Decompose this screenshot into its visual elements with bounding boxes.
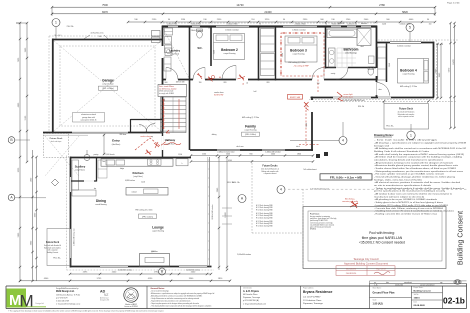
pantry wall <box>96 158 98 182</box>
svg-text:deck: deck <box>296 146 300 148</box>
wall bed3 right bathroom left <box>325 26 327 69</box>
svg-text:HW ceiling @ 2.55m: HW ceiling @ 2.55m <box>135 210 153 212</box>
closets between bed2 bed3 <box>261 29 275 53</box>
svg-text:4,000x1.0 window: 4,000x1.0 window <box>397 46 411 48</box>
svg-text:fibre glass pool NARELLAN: fibre glass pool NARELLAN <box>362 236 403 240</box>
stair notes box <box>158 85 187 97</box>
svg-text:hwc: hwc <box>102 161 105 163</box>
svg-text:Future Deck: Future Deck <box>50 137 63 140</box>
svg-text:3,040x2,440 STACKER door: 3,040x2,440 STACKER door <box>343 99 365 102</box>
svg-text:90: 90 <box>325 23 327 25</box>
future deck left entry <box>44 134 69 158</box>
window top wall <box>216 25 249 28</box>
svg-text:- Cladding: brick veneer 70 se: - Cladding: brick veneer 70 series & wea… <box>374 210 454 213</box>
entry porch wall right <box>162 133 164 158</box>
red entry marks <box>154 142 159 148</box>
wall garage bottom <box>43 132 163 134</box>
svg-text:4x Roof tile vents: 4x Roof tile vents <box>91 32 104 35</box>
svg-text:2,350x1.0 W04: 2,350x1.0 W04 <box>295 23 306 25</box>
svg-text:24.06.2020: 24.06.2020 <box>395 285 403 287</box>
svg-text:- Ground with plumbing, draina: - Ground with plumbing, drainage, plumbe… <box>374 176 455 179</box>
bathroom tile grid <box>336 48 338 67</box>
door arc wc <box>193 68 205 80</box>
svg-text:Drawing Notes:: Drawing Notes: <box>374 133 394 137</box>
left dimension lines <box>19 23 21 281</box>
svg-text:Bedroom 4: Bedroom 4 <box>400 69 417 73</box>
window lounge bottom <box>100 265 128 267</box>
svg-text:island: island <box>132 192 137 194</box>
svg-text:24/08/2020: 24/08/2020 <box>346 273 357 275</box>
kitchen bench <box>101 159 173 166</box>
svg-text:robe: robe <box>378 88 381 91</box>
svg-text:(vinyl floor): (vinyl floor) <box>170 53 180 56</box>
svg-text:1,130x0.6 W01: 1,130x0.6 W01 <box>167 23 178 25</box>
title block upper mini row <box>370 280 467 282</box>
svg-text:2,550x1.0 W03: 2,550x1.0 W03 <box>227 23 238 25</box>
title block frame <box>6 285 467 287</box>
svg-text:900x0.6 W02: 900x0.6 W02 <box>191 23 201 25</box>
stair red balustrade lines <box>163 99 165 129</box>
svg-text:900: 900 <box>249 153 252 155</box>
svg-text:e: maurice@mnmdesign.co.nz: e: maurice@mnmdesign.co.nz <box>56 303 80 305</box>
svg-text:Building Consent: Building Consent <box>414 289 432 292</box>
red scribble kitchen wall <box>145 150 152 156</box>
svg-text:1,200: 1,200 <box>178 154 182 156</box>
window lounge bottom <box>179 265 207 267</box>
future deck bottom-left <box>47 229 70 266</box>
svg-text:4,880 kitchen: 4,880 kitchen <box>125 179 135 182</box>
red label hall smoke <box>211 75 214 78</box>
svg-text:1790: 1790 <box>151 251 155 253</box>
roof eave dashed outline <box>48 36 50 135</box>
tiled shower <box>357 29 371 46</box>
svg-text:obscure: obscure <box>361 22 367 25</box>
svg-text:11000: 11000 <box>225 211 227 217</box>
window top wall <box>331 25 341 28</box>
svg-text:- Roofing: concrete tiles on t: - Roofing: concrete tiles on timber trus… <box>374 212 437 215</box>
top dimension lines <box>52 6 435 8</box>
grid bubble A left <box>8 194 15 201</box>
svg-text:Tall refurbishment: Tall refurbishment <box>303 168 317 171</box>
top small dimension row <box>128 21 435 23</box>
svg-text:760: 760 <box>317 83 320 85</box>
svg-text:vanity: vanity <box>331 72 336 75</box>
garage ceiling dashed rect <box>60 46 155 126</box>
svg-text:1:50 (A2): 1:50 (A2) <box>373 302 383 305</box>
svg-text:Pool with fencing:: Pool with fencing: <box>369 231 395 235</box>
wall bathroom bottom <box>326 67 376 69</box>
svg-text:- All drawings + specification: - All drawings + specifications are subj… <box>374 141 467 144</box>
svg-text:HW ceiling @ 2.55m: HW ceiling @ 2.55m <box>400 86 418 88</box>
svg-text:Future Deck: Future Deck <box>46 241 60 244</box>
svg-text:1160: 1160 <box>202 153 206 155</box>
window top wall <box>168 25 178 28</box>
window dining left <box>69 177 71 192</box>
svg-text:Pool fence:: Pool fence: <box>310 214 320 216</box>
bath <box>327 29 357 38</box>
svg-text:5: 5 <box>409 26 411 30</box>
svg-text:4: 4 <box>280 188 282 192</box>
svg-text:concrete pad verify: concrete pad verify <box>342 200 358 203</box>
svg-text:auto opener 4.8x2.1h: auto opener 4.8x2.1h <box>81 118 97 121</box>
svg-text:02-1b: 02-1b <box>443 296 465 306</box>
svg-text:Hallway: Hallway <box>165 138 176 142</box>
svg-text:- Safety glass to be to NZS422: - Safety glass to be to NZS4223, to all … <box>374 201 443 204</box>
bed bedroom4 <box>398 59 429 84</box>
wall hall top <box>162 79 377 81</box>
svg-text:- Aluminium double glazed join: - Aluminium double glazed joinery powder… <box>374 164 458 167</box>
svg-text:2,400x600 window: 2,400x600 window <box>118 270 133 272</box>
svg-text:13 Celestina Close: 13 Celestina Close <box>303 299 322 302</box>
wall lounge bottom <box>70 266 212 268</box>
entry vestibule <box>130 119 132 133</box>
svg-text:8470: 8470 <box>102 10 108 14</box>
svg-text:2,400x600 window: 2,400x600 window <box>186 270 201 272</box>
bed bedroom2 <box>214 34 245 60</box>
round stamp <box>124 288 138 302</box>
svg-text:Design Ltd: Design Ltd <box>374 144 389 147</box>
svg-text:Dining: Dining <box>96 199 106 203</box>
svg-text:<35,000Lt: NO consent needed: <35,000Lt: NO consent needed <box>359 241 405 245</box>
svg-text:Garage: Garage <box>102 79 114 83</box>
wall bed4 top <box>376 42 434 44</box>
laundry tub <box>165 48 172 56</box>
svg-text:Bedroom 3: Bedroom 3 <box>290 49 307 53</box>
svg-text:820: 820 <box>267 82 270 84</box>
wall kitchen top <box>70 157 191 159</box>
svg-text:Tauranga City Council: Tauranga City Council <box>353 257 379 261</box>
scullery bottom wall <box>71 180 97 182</box>
svg-text:MnM Design Ltd.: MnM Design Ltd. <box>56 290 75 293</box>
future deck right of bed4 <box>313 100 457 102</box>
red smoke alarm label bath <box>337 92 343 101</box>
wall bed4 bottom <box>311 97 435 99</box>
svg-text:2,440: 2,440 <box>306 123 308 127</box>
window bed4 bottom wall <box>378 96 391 98</box>
svg-text:3,040x2,440 stacker: 3,040x2,440 stacker <box>211 204 214 220</box>
svg-text:2,440x2,440 window: 2,440x2,440 window <box>265 151 281 153</box>
svg-text:90: 90 <box>259 23 261 25</box>
svg-text:BC#21093: BC#21093 <box>346 268 357 270</box>
svg-text:RL +9.8: RL +9.8 <box>437 44 443 46</box>
red pool fixing scribble <box>350 201 358 208</box>
svg-text:900: 900 <box>165 82 168 84</box>
lounge ffl box <box>139 214 157 218</box>
svg-text:Papamoa, Tauranga: Papamoa, Tauranga <box>303 302 323 305</box>
grid bubble family dim <box>339 137 347 145</box>
svg-text:pantry: pantry <box>94 153 99 156</box>
svg-text:3,210: 3,210 <box>214 50 216 54</box>
svg-text:2440: 2440 <box>271 153 275 155</box>
svg-text:Laundry: Laundry <box>169 49 180 53</box>
deck posts <box>316 154 320 158</box>
door opening hall <box>193 78 205 80</box>
svg-text:PGL 23b: PGL 23b <box>67 26 74 28</box>
svg-text:900x0.5 obs: 900x0.5 obs <box>332 23 341 25</box>
wall family right <box>311 97 313 151</box>
svg-text:- Concrete floor slab: 100mm,: - Concrete floor slab: 100mm, reinforcin… <box>374 207 443 210</box>
svg-text:05-08-2020: 05-08-2020 <box>414 305 426 307</box>
door opening hall <box>236 78 248 80</box>
svg-text:3,040: 3,040 <box>389 63 391 67</box>
svg-text:e: bryansdee@outlook.com: e: bryansdee@outlook.com <box>243 302 266 305</box>
svg-text:W.C.: W.C. <box>198 48 203 50</box>
entry area dashed diagonals <box>45 136 79 176</box>
grid bubble B left upper <box>8 137 15 144</box>
svg-text:app: app <box>440 282 443 284</box>
svg-text:(FFL 0.08m): (FFL 0.08m) <box>245 134 256 136</box>
svg-text:p 021-2402700 (A): p 021-2402700 (A) <box>243 299 259 302</box>
svg-text:m 021 046 1769: m 021 046 1769 <box>56 300 69 302</box>
door laundry <box>161 46 163 58</box>
svg-text:garage door with: garage door with <box>82 116 95 119</box>
svg-text:- All timber shall be treated: - All timber shall be treated in conjunc… <box>374 156 462 159</box>
svg-text:carpet flooring: carpet flooring <box>403 73 415 76</box>
svg-text:760: 760 <box>199 82 202 84</box>
svg-text:on site to manufacturers speci: on site to manufacturers specifications … <box>374 184 431 187</box>
svg-text:4500: 4500 <box>228 160 232 162</box>
svg-text:- All building work shall be c: - All building work shall be carried out… <box>374 147 467 150</box>
wardrobe bed4 <box>378 47 386 80</box>
deck joist notes <box>222 207 232 209</box>
wall garage top <box>52 39 163 41</box>
svg-text:Design Ltd: Design Ltd <box>36 302 44 305</box>
ensuite wc <box>368 68 374 75</box>
svg-text:Page 2 of 4b: Page 2 of 4b <box>447 3 460 5</box>
wall family bottom <box>190 149 313 151</box>
svg-text:- Waterproofing membranes, per: - Waterproofing membranes, per the manuf… <box>374 170 463 173</box>
svg-text:Family: Family <box>245 125 256 129</box>
ensuite basin <box>369 56 375 64</box>
pool fence dashed <box>302 189 304 268</box>
leader arrows roof vents <box>84 35 90 39</box>
svg-text:1: 1 <box>410 133 412 137</box>
svg-text:2,000: 2,000 <box>382 23 386 25</box>
svg-text:2780: 2780 <box>379 3 385 7</box>
svg-text:19019: 19019 <box>414 298 421 300</box>
svg-text:tiled: tiled <box>360 45 363 48</box>
right dimension lines <box>450 23 452 128</box>
linen shelves <box>165 28 173 35</box>
svg-text:p 07 573 8179: p 07 573 8179 <box>56 297 68 299</box>
svg-text:deck over: deck over <box>236 145 244 148</box>
svg-text:- Hot water cylinder restraine: - Hot water cylinder restrained as per G… <box>374 173 445 176</box>
garage door opening <box>72 131 128 133</box>
grid bubble 5 top-right <box>406 24 414 32</box>
scullery bench <box>72 160 79 190</box>
title block mini revision row <box>370 283 467 285</box>
svg-text:Scale:: Scale: <box>373 299 378 301</box>
svg-text:- Timber to weatherboard produ: - Timber to weatherboard products & retr… <box>374 187 464 190</box>
svg-text:FDL 3b-: FDL 3b- <box>386 126 393 128</box>
grid bubble deck 4 <box>277 186 285 194</box>
svg-text:Building Consent: Building Consent <box>456 211 465 265</box>
svg-text:A. & R. Bryans: A. & R. Bryans <box>243 290 260 293</box>
svg-text:(tiled flooring): (tiled flooring) <box>345 52 357 55</box>
svg-text:concrete floor: concrete floor <box>102 83 114 86</box>
wall stairs right / family left <box>189 26 191 151</box>
wall dining left <box>70 157 72 268</box>
FFL datum box <box>320 174 372 180</box>
svg-text:Papamoa, Tauranga: Papamoa, Tauranga <box>243 296 261 299</box>
svg-text:7500: 7500 <box>102 3 108 7</box>
svg-text:smoke alarms: smoke alarms <box>140 136 151 138</box>
window diamond tag <box>52 179 59 186</box>
garage dashed diagonals <box>54 41 161 131</box>
svg-text:Entry: Entry <box>112 139 120 143</box>
svg-text:2,400x600 window: 2,400x600 window <box>237 254 252 256</box>
wall laundry left vertical <box>162 26 164 134</box>
svg-text:(vinyl floor): (vinyl floor) <box>133 175 143 178</box>
svg-text:carpet floor: carpet floor <box>166 142 175 145</box>
svg-text:Ground Floor Plan: Ground Floor Plan <box>373 292 395 295</box>
red dashed family wall <box>305 103 307 146</box>
wall bed2 right <box>258 26 260 81</box>
svg-text:(tiled floor): (tiled floor) <box>112 143 121 146</box>
svg-text:FFL 0.00+ = 9.1m = MD: FFL 0.00+ = 9.1m = MD <box>330 175 363 179</box>
svg-text:860 door: 860 door <box>120 133 127 136</box>
door arc bed4 <box>377 83 390 96</box>
svg-text:Lounge: Lounge <box>152 226 164 230</box>
svg-text:Future Deck: Future Deck <box>399 108 413 111</box>
svg-text:2,400x2,100 sliding door: 2,400x2,100 sliding door <box>74 228 76 246</box>
mini logo mark <box>454 280 461 284</box>
svg-text:- All penetrations & fixings t: - All penetrations & fixings to be seale… <box>374 161 453 164</box>
svg-text:- Insulation: R2.9 ceiling, R2: - Insulation: R2.9 ceiling, R2.0 walls, … <box>374 204 448 207</box>
stacker door family <box>333 96 371 98</box>
svg-text:2,350x1.0 window: 2,350x1.0 window <box>292 30 306 32</box>
svg-text:2,130x0.6 window: 2,130x0.6 window <box>189 30 203 32</box>
svg-text:- Do not scale from drawings: - Do not scale from drawings <box>374 139 437 142</box>
meter boxes <box>152 31 161 37</box>
red mark family door <box>304 102 309 110</box>
svg-text:carpet flooring: carpet flooring <box>224 52 236 55</box>
svg-text:1,200x0.5 obs: 1,200x0.5 obs <box>347 23 357 25</box>
red hallway path <box>135 138 168 150</box>
svg-text:5820: 5820 <box>402 10 408 14</box>
laundry bench <box>164 57 171 71</box>
grid bubble notes 1 <box>407 131 415 139</box>
red dashed escape route bed3 <box>281 33 324 76</box>
svg-text:4,000x1.0 W06: 4,000x1.0 W06 <box>400 23 411 25</box>
svg-text:110: 110 <box>429 23 432 25</box>
grid bubble deck A <box>238 195 246 203</box>
svg-text:HW ceiling @ 2.55m: HW ceiling @ 2.55m <box>288 62 306 64</box>
svg-text:SD/ST2 HW: SD/ST2 HW <box>290 97 301 99</box>
svg-text:sliding: sliding <box>212 134 217 136</box>
red smoke alarm label hall left <box>288 95 303 100</box>
svg-text:1,100: 1,100 <box>141 182 145 184</box>
svg-text:- All plumbing to be as per G1: - All plumbing to be as per G12/AS1 & G1… <box>374 198 437 201</box>
stacker doors lounge right <box>209 157 211 267</box>
svg-text:2,000 bench: 2,000 bench <box>105 154 114 156</box>
svg-text:FDL 3b-: FDL 3b- <box>53 258 60 260</box>
window top wall <box>361 25 371 28</box>
wall closet divider <box>275 26 277 81</box>
door arc laundry <box>166 68 178 80</box>
grid bubble bottom B <box>159 268 166 275</box>
window dining left <box>69 229 71 258</box>
pool area outer rect <box>303 207 446 269</box>
svg-text:manufacture (all sizes subject: manufacture (all sizes subject to site c… <box>374 195 424 198</box>
svg-text:- All electrical services, pos: - All electrical services, positions & n… <box>374 181 460 184</box>
svg-text:Future Decks: Future Decks <box>262 165 278 168</box>
laundry dashed roofline <box>163 28 189 78</box>
svg-text:sd: sd <box>246 83 248 85</box>
pool area inner rect <box>308 211 442 261</box>
window top wall <box>192 25 200 28</box>
door arc bed2 <box>222 66 236 80</box>
svg-text:wood flooring: wood flooring <box>95 203 106 206</box>
laundry appliances <box>165 37 172 45</box>
red dashed line family bottom <box>299 144 319 146</box>
small circle kitchen wall <box>84 155 90 161</box>
svg-text:lintel: lintel <box>208 27 212 30</box>
site boundary dashed line <box>288 188 468 190</box>
svg-text:sd: sd <box>242 84 244 86</box>
garage door note box <box>73 113 105 123</box>
fridge <box>176 159 188 166</box>
window top wall <box>347 25 356 28</box>
svg-text:carpet flooring: carpet flooring <box>245 129 257 132</box>
svg-text:License no 2012345: License no 2012345 <box>124 306 138 308</box>
window top wall <box>283 25 317 28</box>
svg-text:Bryans Residence: Bryans Residence <box>303 290 333 294</box>
kitchen island <box>126 188 168 196</box>
pantry shelves <box>98 160 107 178</box>
svg-text:- Smoke alarms fitted within 3: - Smoke alarms fitted within 3m of bedro… <box>374 167 456 170</box>
svg-text:NZ: NZ <box>104 293 108 297</box>
red path bed3 to hall <box>317 76 319 93</box>
stairs <box>161 97 187 133</box>
svg-text:1: 1 <box>55 21 57 25</box>
svg-text:3,210: 3,210 <box>282 53 284 57</box>
svg-text:carpet flooring: carpet flooring <box>293 53 305 56</box>
window family bottom <box>217 149 240 151</box>
red mark wc door <box>197 73 202 79</box>
red marks bed2 door <box>238 75 246 81</box>
svg-text:FDL 3b-: FDL 3b- <box>227 182 234 184</box>
svg-text:123 Boucher Avenue, Te Puke: 123 Boucher Avenue, Te Puke <box>56 293 80 296</box>
svg-text:820: 820 <box>224 82 227 84</box>
svg-text:(FFL -0.08m): (FFL -0.08m) <box>102 88 114 90</box>
svg-text:(vinyl floor): (vinyl floor) <box>75 169 85 172</box>
svg-text:up: up <box>151 136 153 138</box>
svg-text:smoke alarm: smoke alarm <box>343 97 354 99</box>
window family bottom <box>262 149 285 151</box>
logo MnM green square <box>7 289 27 308</box>
bathroom vanity <box>329 48 336 67</box>
svg-text:M: M <box>20 292 34 311</box>
red scribble hall wall <box>207 77 213 82</box>
svg-text:46 Dioselia Place: 46 Dioselia Place <box>243 294 258 296</box>
svg-text:per the specifications & tile: per the specifications & tile manufactur… <box>374 190 445 193</box>
bottom dimension lines <box>70 273 211 275</box>
svg-text:2,440x2,1 stacker door: 2,440x2,1 stacker door <box>217 150 235 153</box>
svg-text:900: 900 <box>99 36 102 38</box>
fireplace lounge <box>140 254 170 267</box>
grid bubble 1 top-left <box>52 19 60 27</box>
svg-text:Approved Building Consent Docu: Approved Building Consent Document <box>344 262 388 266</box>
svg-text:10470: 10470 <box>453 58 455 64</box>
svg-text:16R @ 188: 16R @ 188 <box>176 82 185 84</box>
svg-text:HW ceiling @ 2.55m: HW ceiling @ 2.55m <box>242 117 260 119</box>
svg-text:Bathroom: Bathroom <box>343 48 358 52</box>
svg-text:footings, slabs, extra low, he: footings, slabs, extra low, heat of thum… <box>374 178 422 181</box>
svg-text:2440: 2440 <box>226 153 230 155</box>
svg-text:FDL 3b: FDL 3b <box>358 106 364 108</box>
wall bed4 left <box>386 44 388 83</box>
